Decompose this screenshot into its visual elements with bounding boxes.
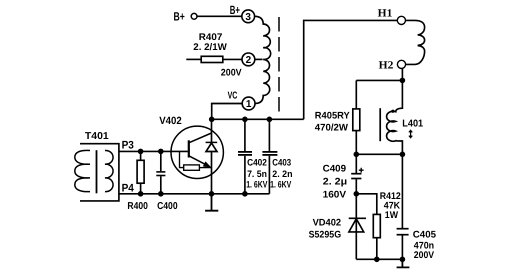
svg-text:VD402: VD402 <box>313 217 342 228</box>
T401 core <box>96 150 98 193</box>
capacitor C403 <box>262 119 277 194</box>
heater winding H1-H2 <box>406 20 425 64</box>
svg-text:2. 2μ: 2. 2μ <box>323 177 347 188</box>
svg-text:P3: P3 <box>122 139 134 151</box>
svg-text:R405RY: R405RY <box>315 110 351 121</box>
junction R412 bottom <box>374 257 380 263</box>
svg-text:160V: 160V <box>323 189 347 200</box>
svg-text:H2: H2 <box>379 59 394 71</box>
junction C405 bottom / ground <box>400 257 406 263</box>
junction C409 bottom / R412 tap <box>354 191 360 197</box>
svg-text:200V: 200V <box>414 250 435 261</box>
capacitor C409 (polarized) <box>351 154 363 194</box>
V402 base bar <box>188 140 190 157</box>
svg-text:1W: 1W <box>385 210 399 221</box>
svg-text:2. 2/1W: 2. 2/1W <box>193 42 227 53</box>
collector rail <box>212 118 304 120</box>
svg-text:L401: L401 <box>402 118 423 129</box>
wire pin2 to winding <box>255 58 263 60</box>
capacitor C405 <box>397 154 409 259</box>
junction C400 top <box>158 149 164 155</box>
transformer T401 frame <box>80 144 119 201</box>
resistor R407 <box>186 56 242 62</box>
junction R400 bottom <box>138 191 144 197</box>
capacitor C402 <box>238 119 252 194</box>
svg-text:H1: H1 <box>378 7 393 19</box>
P4 rail (emitter line) <box>119 193 270 195</box>
svg-text:1. 6KV: 1. 6KV <box>246 178 268 189</box>
wire collector rail up to H1 line <box>304 20 398 119</box>
ground (right) <box>397 259 410 267</box>
svg-text:C409: C409 <box>323 163 347 174</box>
resistor R405RY <box>353 80 360 154</box>
svg-text:470/2W: 470/2W <box>315 122 349 133</box>
pin circle 3 of T402 primary <box>242 10 255 23</box>
svg-text:3: 3 <box>245 12 251 23</box>
pin circle 2 of T402 primary <box>242 53 255 66</box>
junction mid rail right <box>400 152 406 158</box>
diode VD402 <box>349 194 366 259</box>
svg-text:R400: R400 <box>127 201 148 212</box>
pin circle 1 of T402 primary <box>242 97 255 110</box>
transistor V402 body circle <box>171 126 223 178</box>
wire VC pin1 to collector node <box>212 104 243 119</box>
resistor R412 <box>373 214 380 259</box>
ground (emitter) <box>205 194 218 211</box>
T401 right winding <box>105 150 113 191</box>
P3 rail (base line) <box>119 150 188 152</box>
mid rail (R405/C409/L401/C405 node) <box>356 153 402 155</box>
B+ input terminal (open circle) <box>191 13 197 19</box>
wire B+ terminal to pin 3 <box>197 15 241 17</box>
svg-text:1: 1 <box>246 99 252 110</box>
V402 internal damper diode <box>206 142 218 151</box>
L401 polarity dot <box>391 110 394 113</box>
capacitor C400 <box>156 151 165 193</box>
svg-text:B+: B+ <box>230 3 240 17</box>
svg-text:7. 5n: 7. 5n <box>247 168 267 179</box>
junction mid rail left <box>354 152 360 158</box>
svg-text:B+: B+ <box>174 10 185 24</box>
junction C402 top <box>242 117 248 123</box>
L401 adjustable-core mark <box>409 130 412 137</box>
junction emitter <box>209 191 215 197</box>
svg-text:C405: C405 <box>413 229 437 240</box>
svg-text:2: 2 <box>246 55 252 66</box>
junction C402 bottom <box>242 191 248 197</box>
V402 emitter stroke with arrow <box>189 156 212 168</box>
H2 terminal (open circle) <box>397 60 405 68</box>
junction H2 node <box>400 78 406 84</box>
bottom rail <box>356 258 402 260</box>
svg-text:1. 6KV: 1. 6KV <box>270 178 292 189</box>
T401 left winding <box>75 150 90 191</box>
L401 core line <box>379 108 381 141</box>
svg-text:S5295G: S5295G <box>309 229 342 240</box>
V402 collector-emitter vertical lead <box>211 119 213 194</box>
svg-text:2. 2n: 2. 2n <box>272 168 292 179</box>
svg-text:T401: T401 <box>85 131 109 142</box>
T402 core (dashed) <box>278 17 280 112</box>
svg-text:C402: C402 <box>247 156 267 167</box>
H1 terminal (open circle) <box>397 16 405 24</box>
V402 internal base-emitter resistor <box>180 151 212 170</box>
T402 primary winding (pins 3-2-1) <box>255 16 271 103</box>
junction R400 top <box>138 149 144 155</box>
junction C403 top <box>267 117 273 123</box>
wire to R412 <box>356 194 377 215</box>
junction C400 bottom <box>158 191 164 197</box>
wire H2 down to node <box>401 69 403 81</box>
svg-text:C400: C400 <box>157 201 178 212</box>
V402 collector stroke <box>189 133 212 143</box>
svg-text:V402: V402 <box>159 115 182 127</box>
svg-text:P4: P4 <box>122 182 135 194</box>
resistor R400 <box>137 151 144 193</box>
wire H2 node rail <box>356 79 402 81</box>
svg-text:C403: C403 <box>272 156 291 167</box>
svg-text:VC: VC <box>228 90 238 101</box>
svg-text:200V: 200V <box>221 67 242 78</box>
junction collector/VC <box>209 117 215 123</box>
inductor L401 winding <box>387 80 403 154</box>
